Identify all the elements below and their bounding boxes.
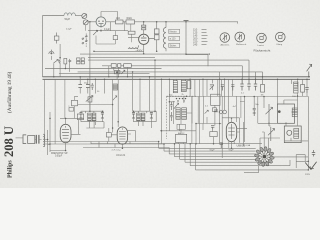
wire R2 drop chain [130,24,133,42]
wire V5 hookups [232,118,248,148]
capacitor C28 [231,85,234,91]
capacitor C6 [58,60,61,64]
bus y76.8 dark [43,76,311,78]
output transformer box [278,104,295,123]
coil L10 hatched [141,113,145,121]
svg-text:(Ausführung 19 46): (Ausführung 19 46) [6,72,13,113]
wire osc links [160,96,221,144]
title: Philips 208 U (Ausführung 19 46) vertical left [2,72,16,178]
bus y51 [94,50,144,52]
wire left long verticals [44,79,65,144]
svg-text:Sicher.: Sicher. [170,45,177,48]
wire top long to node [135,21,239,23]
svg-text:245: 245 [193,43,198,47]
wire V2 cathode [143,44,145,54]
comb drops right half [169,79,307,104]
coil L4 hatched [173,81,177,93]
trimmer C11 [210,85,214,91]
wire osc box stubs [179,96,199,144]
dashed gang line [167,96,197,139]
coupling circles [219,110,226,114]
bottom bus b [45,143,164,145]
wire R1 to R2 [123,21,126,23]
tube V2 UCH21 circle [139,34,149,44]
bus y71 [78,72,263,84]
wire osc small caps [170,102,172,121]
rectifier box UY21 [284,126,301,143]
mains switch trimmer arrow [54,60,59,64]
tone pot arrow [268,127,275,141]
resistor R4 zigzag [128,45,139,48]
tube pin stubs [91,142,130,148]
capacitor C25 [214,110,218,112]
nest step 2 [164,144,256,151]
knob K1 back view [220,33,230,43]
resistor R9 box [118,64,121,68]
wire vert x140 [139,79,141,104]
resistor R2 [126,20,135,24]
wire R1R2 mid drop [123,22,125,31]
knob K4 back view [276,32,286,42]
svg-text:6,3V 0,3A: 6,3V 0,3A [241,144,251,147]
wire vert x155 [154,60,156,111]
bottom bus c [91,143,262,145]
comb verticals below dark bus left [80,77,104,94]
osc trimmer arrow [174,103,179,109]
capacitor C26 box [54,33,59,44]
star wafer switch S1 [254,147,274,167]
resistor R8 box [111,64,116,68]
capacitor C23 pair [253,108,256,116]
capacitor C24 [312,150,315,157]
svg-text:50μF: 50μF [210,150,216,152]
tube V4 UCH21 [117,127,127,144]
bus y54 [80,53,209,55]
svg-text:Rückansicht: Rückansicht [254,48,271,52]
wire stub x110 [110,22,112,31]
svg-text:a 120: a 120 [170,39,176,41]
coil L12 hatched [176,108,180,120]
mid labels [205,104,260,108]
svg-text:1kΩ: 1kΩ [116,18,120,20]
coil L6 hatched [294,82,298,93]
knob K2 back view [235,32,245,42]
resistor R16 box [106,133,111,137]
knob K3 back view [257,33,267,43]
svg-text:Wellensch.: Wellensch. [236,44,247,46]
capacitor C13 [247,84,250,91]
tube V1 UCH21 triode circle [96,17,106,27]
wire transformer feed [165,22,167,52]
wire top end tick [237,22,239,24]
mains voltage taps [202,30,208,45]
oscillator unit box [176,134,187,142]
wire drop c [94,79,96,93]
resistor R12 box [261,85,265,93]
knob labels [221,44,283,47]
wire audio mid links [240,102,278,127]
wire V4 hookups [109,128,136,148]
wire rectifier out [285,138,309,141]
bus y73 [59,73,150,75]
capacitor C9 bars [78,85,82,88]
svg-text:208 U: 208 U [2,126,16,157]
capacitor C29 [91,83,94,90]
wire R20 stubs [75,96,79,118]
capacitor C5 stack above V2 [142,25,146,30]
coil L7 hatched [88,113,92,121]
capacitor C18 [132,113,135,119]
capacitor C16 [80,113,83,119]
wire V2 right [149,22,157,51]
osc contact dots [176,98,186,102]
capacitor C20 electrolytic bars [36,135,39,144]
svg-text:Abstimm.: Abstimm. [221,44,231,47]
bus y65 box row [102,66,242,84]
nest step 4 [175,144,256,157]
capacitor C17 [101,113,104,119]
resistor R7 boxes right [77,58,85,64]
bus y68 [45,68,162,70]
wire vert x112 [112,79,114,132]
bus y60 [88,60,249,84]
trimmer arrow mid [121,70,125,74]
wire speaker links [35,130,50,155]
mains plug arrow [305,162,316,170]
coil L3 hatched box [113,84,118,90]
svg-text:30kΩ: 30kΩ [126,18,132,20]
capacitor C21 [211,125,214,129]
tiny value smudges [84,83,296,98]
wire drop a [79,77,81,94]
wire AVC vertical [89,22,91,111]
wire V2 top cap [143,22,145,35]
trimmer capacitor pair [82,14,88,25]
resistor R6 box [64,58,67,64]
wire IFT1 top [81,102,104,113]
svg-text:Lautst.: Lautst. [258,44,265,47]
wire vert x161 [161,79,163,143]
transformer primary coil L2 [163,28,166,49]
wire under V1 [88,27,128,31]
svg-text:0,1μF: 0,1μF [104,29,111,31]
coil L13 hatched [182,108,187,120]
capacitor C10 bars [86,85,90,88]
wire drop d [104,79,106,93]
wire IFT2 top [133,104,156,113]
capacitor C14 [254,84,257,91]
bottom bus a [45,141,159,143]
wire IFT1 bottom [81,118,104,128]
trimmer R14 with arrow [86,96,93,102]
wire trimmer drop [85,25,87,31]
svg-text:Klang: Klang [277,44,283,46]
bus y79.3 dark [43,78,311,80]
wire osc right verticals [213,72,229,158]
terminal bar tick [184,19,189,21]
label smudges row2 [178,132,234,152]
wire drop b [87,79,89,93]
trimmer arrow IF grid [113,96,117,100]
capacitor C12 [240,84,243,91]
wire drop e [169,79,185,96]
resistor R17 small box [212,108,216,112]
wire antenna top [43,15,65,17]
phono arrow top right [307,64,312,77]
wire drop f [190,79,207,96]
wire mid column verticals [200,96,270,124]
resistor R20 box [72,100,78,106]
wire R19 stubs [96,31,115,44]
wire mid verticals to bus [109,66,128,80]
wire IFT2 bottom [133,111,156,128]
coil tap labels [169,29,180,47]
wave switch contacts [82,34,87,48]
label smudges top [65,18,133,31]
resistor R21 small [69,108,74,112]
resistor R13 box [301,85,305,93]
svg-text:0,05μF: 0,05μF [55,156,63,158]
resistor R18 box [210,132,217,137]
short lower link [244,166,259,173]
nest step 6 [185,144,271,163]
svg-text:0,1μF: 0,1μF [66,29,72,31]
svg-text:2k: 2k [182,94,184,96]
capacitor C22 [220,143,223,148]
resistor R22 small [177,124,185,129]
svg-text:≈400V: ≈400V [136,50,143,53]
svg-text:50μH: 50μH [65,19,71,21]
wire node to corner [186,55,208,67]
wire antenna down-lead [42,16,44,77]
resistor R5 stack right of V2 [154,29,159,40]
wire vert x149 [149,77,151,106]
wire coil to trimmer [75,15,82,17]
resistor R10 box [124,64,132,68]
capacitor C27 [221,85,224,91]
wire IF link y104.5 [78,104,113,106]
volume pot arrow [266,104,273,126]
coil L9 hatched [137,113,141,121]
wire vert x118 [117,80,119,127]
bracket magnet [23,135,26,144]
svg-text:50μF: 50μF [229,150,235,152]
nest step 1 [159,142,256,149]
capacitor C15 [305,87,308,93]
wire audio top [167,97,309,143]
resistor R1 [116,20,124,24]
IF can rect [211,94,220,105]
coil L11 spring [43,134,45,147]
wire mains feeds [51,44,69,77]
capacitor C19 [150,113,153,119]
nest step 5 [180,144,257,160]
capacitor C7 [69,59,72,63]
diode arrow [205,110,209,113]
coil L8 hatched [92,113,96,121]
wire tube screen top [222,117,239,119]
resistor R15 box [77,114,83,120]
bus y57 [88,57,155,59]
wire comb mid verticals [200,79,237,143]
capacitor C8 with dot [114,71,120,74]
shield symbol left [49,50,54,54]
tube V5 UBL21 [226,122,236,141]
wire right vertical [296,97,308,169]
nest step 8 [196,144,309,170]
svg-text:Neutro: Neutro [170,31,178,34]
wire node T down [185,22,187,55]
svg-text:FREISCHW. SP.: FREISCHW. SP. [51,153,68,155]
svg-text:UCH 21: UCH 21 [116,153,126,157]
transformer box T2 [28,136,35,144]
long vertical feeders [113,60,162,144]
wire V2 left [128,37,139,39]
resistor R19 small box [113,36,117,40]
wire V1 to R1 [106,21,116,23]
wire star feeds [260,132,308,157]
resistor R11 box [187,81,191,89]
wire V3 top [50,112,84,152]
wire V1 plate top loop [101,12,118,21]
svg-text:10H: 10H [292,96,296,98]
tube V3 UCH21 output left [60,124,71,142]
wire drop g [212,79,232,96]
tube V5 pin stubs [229,132,240,148]
svg-text:220V: 220V [305,174,311,176]
wire drop h [242,79,307,104]
svg-text:4,7k 0,1μ: 4,7k 0,1μ [112,150,122,152]
nest step 7 [190,144,290,166]
choke L14 hatched [292,108,297,117]
wire vert x132 [132,72,134,111]
nest step 3 [169,148,256,154]
wire trimmer to tube V1 [88,21,96,23]
wire transformer bottom [278,123,295,126]
resistor R3 box left of V2 [128,31,135,34]
antenna coil L1 [64,13,75,16]
svg-text:Philips: Philips [8,160,14,178]
trimmer arrow small [93,30,98,35]
wire audio links [284,92,307,142]
label FREILAUF [51,153,68,158]
coil L5 hatched [181,81,186,92]
svg-text:1M: 1M [261,94,264,96]
wire speaker left stub [16,137,24,139]
bottom bus d [83,147,169,149]
